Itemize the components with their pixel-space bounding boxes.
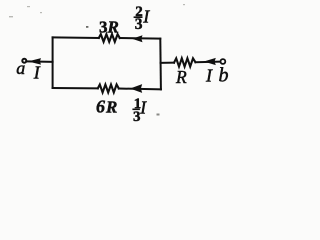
svg-text:R: R (105, 98, 117, 117)
paper specks (9, 4, 185, 116)
terminal a circle (22, 59, 26, 63)
svg-text:3: 3 (99, 17, 108, 36)
svg-text:I: I (205, 66, 213, 86)
svg-text:6: 6 (96, 97, 105, 117)
resistor 3R zigzag (99, 34, 120, 42)
wire right edge (159, 39, 162, 90)
resistor 6R zigzag (98, 85, 119, 93)
svg-text:a: a (16, 58, 25, 78)
svg-text:R: R (175, 67, 187, 87)
wire bottom right segment (119, 88, 161, 91)
svg-text:I: I (33, 62, 41, 82)
current arrow on bottom wire (131, 85, 141, 92)
current arrow on terminal a branch (30, 59, 41, 64)
wire resistor R to terminal b (195, 61, 219, 64)
svg-text:R: R (107, 18, 119, 37)
svg-text:b: b (219, 65, 229, 87)
wire left edge (52, 37, 54, 88)
current arrow on top wire (133, 36, 141, 42)
wire bottom left segment (53, 87, 98, 89)
terminal b circle (221, 59, 226, 64)
label 1/3 fraction bar (132, 108, 140, 110)
current arrow on terminal b branch (205, 59, 215, 65)
label 2/3 fraction bar (134, 16, 143, 18)
wire top right segment (120, 37, 161, 40)
svg-text:I: I (142, 6, 150, 26)
wire right branch to resistor R (161, 62, 175, 64)
resistor R zigzag (174, 58, 195, 66)
svg-text:I: I (139, 98, 147, 118)
svg-text:3: 3 (135, 16, 143, 33)
wire terminal a branch (27, 60, 53, 62)
wire top left segment (53, 36, 99, 39)
